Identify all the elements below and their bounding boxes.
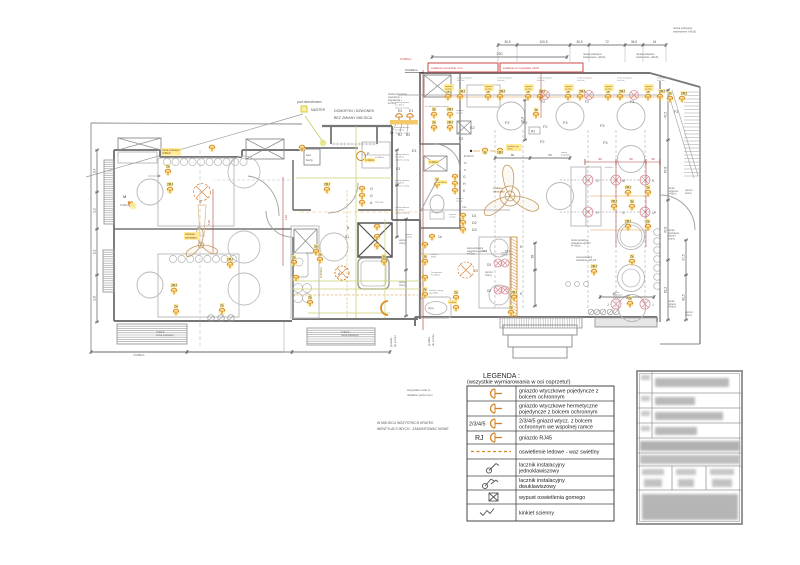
svg-text:2e: 2e xyxy=(483,151,487,155)
svg-text:h=+45cm: h=+45cm xyxy=(395,157,404,159)
svg-text:h=135cm: h=135cm xyxy=(431,275,440,277)
svg-text:pod domofonem: pod domofonem xyxy=(297,100,322,104)
svg-text:czarny: czarny xyxy=(399,242,407,245)
svg-text:wentylator: wentylator xyxy=(493,189,505,193)
svg-text:RJ: RJ xyxy=(531,130,535,134)
svg-text:czarny: czarny xyxy=(485,274,493,277)
svg-text:1e: 1e xyxy=(646,186,650,190)
svg-text:D1: D1 xyxy=(472,214,477,218)
svg-text:ramka polrona: ramka polrona xyxy=(395,126,410,129)
svg-text:1P: 1P xyxy=(652,211,657,215)
svg-text:G: G xyxy=(463,175,466,179)
svg-text:czarny: czarny xyxy=(668,238,676,241)
svg-text:h=w5cm: h=w5cm xyxy=(617,80,625,82)
svg-text:2e: 2e xyxy=(174,305,178,309)
svg-text:czarny: czarny xyxy=(445,88,452,91)
svg-text:F2: F2 xyxy=(585,100,589,104)
svg-text:2e: 2e xyxy=(432,108,436,112)
svg-text:F2: F2 xyxy=(523,121,527,125)
svg-text:czarny: czarny xyxy=(645,88,652,91)
svg-text:n=osut: n=osut xyxy=(431,253,438,256)
svg-text:2RJ: 2RJ xyxy=(324,183,330,187)
svg-text:90: 90 xyxy=(629,157,633,161)
svg-text:h=+45cm: h=+45cm xyxy=(395,210,404,212)
svg-text:E3: E3 xyxy=(396,167,400,171)
svg-text:F3: F3 xyxy=(630,100,634,104)
svg-text:90: 90 xyxy=(598,157,602,161)
svg-text:osprzet czarny: osprzet czarny xyxy=(395,211,410,214)
svg-text:BEZ ZMIANY MIEJSCA: BEZ ZMIANY MIEJSCA xyxy=(334,116,373,120)
svg-text:G: G xyxy=(596,179,599,183)
svg-text:DOMOFON I DZWONEK: DOMOFON I DZWONEK xyxy=(334,109,375,113)
svg-text:47,8: 47,8 xyxy=(664,227,668,233)
svg-text:F3: F3 xyxy=(563,121,567,125)
svg-text:ramka polrona: ramka polrona xyxy=(395,101,410,104)
svg-text:osprzet czarny: osprzet czarny xyxy=(395,158,410,161)
svg-text:zawieszenie +(RuS): zawieszenie +(RuS) xyxy=(673,29,696,33)
svg-text:130: 130 xyxy=(207,220,211,225)
svg-text:2e: 2e xyxy=(509,306,513,310)
svg-text:wal.: wal. xyxy=(306,153,312,157)
svg-text:h=110cm: h=110cm xyxy=(429,161,439,164)
svg-text:oswietlenie +(PL)x5: oswietlenie +(PL)x5 xyxy=(576,259,597,262)
svg-text:lacznik instalacyjny: lacznik instalacyjny xyxy=(519,478,565,484)
svg-text:h=25cm: h=25cm xyxy=(120,203,129,207)
svg-text:osprzet: osprzet xyxy=(565,85,573,88)
svg-text:osprzet: osprzet xyxy=(685,189,693,192)
svg-text:do prania: do prania xyxy=(393,335,397,347)
svg-text:osprzet: osprzet xyxy=(605,85,613,88)
svg-text:czarny: czarny xyxy=(399,284,407,287)
svg-text:ramka: ramka xyxy=(668,187,675,190)
svg-text:plyta: plyta xyxy=(428,306,434,310)
svg-text:1e=wolozin: 1e=wolozin xyxy=(431,272,443,274)
svg-text:zawieszenie +(RuS): zawieszenie +(RuS) xyxy=(636,56,658,59)
svg-text:2RJ: 2RJ xyxy=(171,284,177,288)
svg-text:osprzet: osprzet xyxy=(445,85,453,88)
svg-text:2/3/4/5: 2/3/4/5 xyxy=(469,422,486,428)
svg-text:62,2: 62,2 xyxy=(664,287,668,293)
svg-text:h=55cm: h=55cm xyxy=(668,307,676,309)
svg-text:E2: E2 xyxy=(398,109,402,113)
svg-text:czarny: czarny xyxy=(449,216,456,219)
svg-text:G: G xyxy=(622,211,625,215)
svg-text:M: M xyxy=(123,194,126,199)
svg-text:2e: 2e xyxy=(166,165,170,169)
svg-text:h=w5cm: h=w5cm xyxy=(657,80,665,82)
svg-text:1e: 1e xyxy=(534,108,538,112)
svg-text:jednoklawiszowy: jednoklawiszowy xyxy=(518,469,559,475)
svg-text:gniazdo RJ45: gniazdo RJ45 xyxy=(519,436,552,442)
svg-text:ramka: ramka xyxy=(668,300,675,303)
svg-text:dwuklawiszowy: dwuklawiszowy xyxy=(519,484,556,490)
svg-text:2RJ: 2RJ xyxy=(659,90,665,94)
svg-text:gniazdo wtyczkowe pojedyncze z: gniazdo wtyczkowe pojedyncze z xyxy=(519,389,599,395)
svg-text:ramka: ramka xyxy=(613,291,620,294)
svg-text:osprzet: osprzet xyxy=(456,109,464,112)
svg-text:2RJ: 2RJ xyxy=(499,90,505,94)
svg-text:E1: E1 xyxy=(412,149,417,153)
svg-text:czarny: czarny xyxy=(456,200,463,203)
svg-text:czarny: czarny xyxy=(525,88,532,91)
svg-text:cerka podwojna: cerka podwojna xyxy=(576,256,593,259)
svg-text:ramka polrona: ramka polrona xyxy=(395,179,410,182)
svg-text:podwojna: podwojna xyxy=(668,191,679,193)
svg-text:1e: 1e xyxy=(423,255,427,259)
svg-text:2RJ: 2RJ xyxy=(447,108,453,112)
svg-text:cerka podwojna: cerka podwojna xyxy=(156,334,174,337)
svg-text:80: 80 xyxy=(511,153,515,157)
svg-text:F3: F3 xyxy=(600,124,604,128)
svg-text:h=02szt: h=02szt xyxy=(467,253,475,256)
svg-text:osprzet czarny: osprzet czarny xyxy=(395,184,410,187)
svg-text:2RJ: 2RJ xyxy=(681,92,687,96)
svg-text:MASTER: MASTER xyxy=(311,108,326,112)
svg-text:N: N xyxy=(464,168,466,172)
svg-text:h=110cm: h=110cm xyxy=(365,159,375,162)
svg-text:czarny: czarny xyxy=(685,314,693,317)
svg-text:osprzet: osprzet xyxy=(449,213,457,216)
svg-text:osprzet: osprzet xyxy=(685,311,693,314)
svg-text:osprzet: osprzet xyxy=(485,271,493,274)
svg-text:wszystkie norki w: wszystkie norki w xyxy=(407,388,431,392)
svg-text:2e: 2e xyxy=(314,245,318,249)
svg-text:ukladzie poziomym: ukladzie poziomym xyxy=(407,393,433,397)
svg-text:do prania: do prania xyxy=(431,334,435,346)
svg-text:podwojna: podwojna xyxy=(613,295,623,297)
svg-text:h=180cm: h=180cm xyxy=(375,157,384,159)
svg-text:cerka podwojna: cerka podwojna xyxy=(341,334,359,337)
svg-text:h=+45cm ramka potrona: h=+45cm ramka potrona xyxy=(425,105,450,108)
svg-text:90: 90 xyxy=(548,153,552,157)
svg-text:ramka podwojna: ramka podwojna xyxy=(571,239,589,242)
svg-text:1RJ 2RJ: 1RJ 2RJ xyxy=(375,202,383,204)
svg-text:E2: E2 xyxy=(470,126,475,130)
svg-text:2/3/4/5 gniazd wtycz. z bolcem: 2/3/4/5 gniazd wtycz. z bolcem xyxy=(519,419,593,425)
svg-text:bolcem ochronnym: bolcem ochronnym xyxy=(519,395,565,401)
svg-text:h=55cm: h=55cm xyxy=(668,194,676,196)
svg-text:1e: 1e xyxy=(438,235,442,239)
svg-text:czarny: czarny xyxy=(456,112,463,115)
svg-text:wentylator: wentylator xyxy=(185,235,197,239)
svg-text:2e: 2e xyxy=(630,255,634,259)
svg-text:36,5: 36,5 xyxy=(576,40,582,44)
svg-text:D3: D3 xyxy=(487,263,491,267)
svg-text:polrona: polrona xyxy=(668,303,676,306)
svg-text:2e: 2e xyxy=(646,220,650,224)
svg-text:2RJ: 2RJ xyxy=(167,183,173,187)
svg-text:F2: F2 xyxy=(505,121,509,125)
svg-text:2e: 2e xyxy=(668,92,672,96)
svg-text:72: 72 xyxy=(605,40,609,44)
svg-text:1e: 1e xyxy=(382,255,386,259)
svg-text:1RJ: 1RJ xyxy=(497,151,503,155)
svg-text:ramka polrona: ramka polrona xyxy=(395,153,410,156)
svg-text:C0: C0 xyxy=(474,269,478,273)
svg-text:osprzet: osprzet xyxy=(668,235,676,238)
svg-text:G: G xyxy=(370,194,373,198)
svg-text:lacznik instalacyjny: lacznik instalacyjny xyxy=(519,463,565,469)
svg-text:pojedyncze z bolcem ochronnym: pojedyncze z bolcem ochronnym xyxy=(519,410,598,416)
svg-text:osprzet: osprzet xyxy=(501,251,509,254)
svg-text:zasilanie gn: zasilanie gn xyxy=(507,146,519,148)
svg-text:osprzet czarny: osprzet czarny xyxy=(395,131,410,134)
svg-text:3e: 3e xyxy=(630,200,634,204)
svg-text:osprzet: osprzet xyxy=(405,233,413,236)
svg-text:2RJ: 2RJ xyxy=(459,90,465,94)
svg-text:2RJ: 2RJ xyxy=(625,186,631,190)
svg-text:RJ: RJ xyxy=(475,435,484,442)
svg-text:D2: D2 xyxy=(472,221,477,225)
svg-text:(wszystkie wymiarowania w osi: (wszystkie wymiarowania w osi osprzetu!) xyxy=(467,380,571,386)
svg-text:podwojna: podwojna xyxy=(561,155,571,157)
svg-text:2e: 2e xyxy=(423,288,427,292)
svg-text:gniazdo wtyczkowe hermetyczne: gniazdo wtyczkowe hermetyczne xyxy=(519,404,598,410)
svg-text:230: 230 xyxy=(497,52,503,56)
svg-text:2e: 2e xyxy=(308,296,312,300)
svg-text:44: 44 xyxy=(653,40,657,44)
svg-text:osprzet: osprzet xyxy=(485,85,493,88)
svg-text:1e: 1e xyxy=(390,131,394,135)
svg-text:kinkiet scienny: kinkiet scienny xyxy=(519,511,554,517)
svg-text:2RJ: 2RJ xyxy=(227,258,233,262)
svg-text:36: 36 xyxy=(651,157,655,161)
svg-text:h=55cm: h=55cm xyxy=(162,152,171,155)
svg-text:czarny: czarny xyxy=(605,88,612,91)
svg-text:2e: 2e xyxy=(628,297,632,301)
svg-text:F3: F3 xyxy=(674,110,678,114)
svg-text:h=w5cm: h=w5cm xyxy=(497,80,505,82)
svg-text:osprzet: osprzet xyxy=(399,281,407,284)
svg-text:czarny: czarny xyxy=(485,88,492,91)
svg-text:h=+02szt: h=+02szt xyxy=(571,245,581,248)
svg-text:F3: F3 xyxy=(603,141,607,145)
svg-text:osprzet czarny: osprzet czarny xyxy=(429,289,444,292)
svg-text:2e: 2e xyxy=(432,121,436,125)
svg-text:D3: D3 xyxy=(472,228,477,232)
svg-text:F2: F2 xyxy=(541,100,545,104)
svg-text:czarny: czarny xyxy=(685,192,693,195)
svg-text:ochronnym we wspolnej ramce: ochronnym we wspolnej ramce xyxy=(519,425,593,431)
svg-text:2RJ: 2RJ xyxy=(611,200,617,204)
svg-text:E2: E2 xyxy=(459,137,463,141)
svg-text:zasilanie na zmywarke +RuS: zasilanie na zmywarke +RuS xyxy=(503,66,539,70)
svg-text:osprzet czarny: osprzet czarny xyxy=(395,106,410,109)
svg-text:h=w5cm: h=w5cm xyxy=(457,80,465,82)
svg-text:36,5: 36,5 xyxy=(504,40,510,44)
svg-text:2e: 2e xyxy=(454,291,458,295)
svg-text:tanka podwojna: tanka podwojna xyxy=(467,247,484,250)
svg-text:h=30cm: h=30cm xyxy=(449,302,457,304)
svg-text:h=55cm: h=55cm xyxy=(613,297,621,299)
svg-text:1g=100m: 1g=100m xyxy=(429,293,438,295)
svg-text:wypust oswietlenia gornego: wypust oswietlenia gornego xyxy=(518,495,585,501)
svg-text:F2: F2 xyxy=(540,140,544,144)
svg-text:2RJ: 2RJ xyxy=(447,121,453,125)
svg-text:2,9: 2,9 xyxy=(93,208,97,213)
svg-text:2e: 2e xyxy=(220,304,224,308)
svg-text:O: O xyxy=(370,187,373,191)
svg-text:osprzet: osprzet xyxy=(645,85,653,88)
svg-text:czarny: czarny xyxy=(405,236,412,239)
svg-text:oswietlenie: oswietlenie xyxy=(668,232,680,235)
svg-text:h=200cm: h=200cm xyxy=(400,57,412,61)
svg-text:130: 130 xyxy=(284,215,288,220)
svg-text:zawieszenie +(RuS): zawieszenie +(RuS) xyxy=(583,56,605,59)
svg-text:osprzet: osprzet xyxy=(456,197,464,200)
svg-text:zasilanie na kuchnie m.in.: zasilanie na kuchnie m.in. xyxy=(431,66,463,70)
svg-text:M: M xyxy=(622,179,625,183)
svg-text:h=+45cm: h=+45cm xyxy=(395,130,404,132)
svg-text:WENTYLACYJNYCH - ZAMONTOWAC NO: WENTYLACYJNYCH - ZAMONTOWAC NOWE xyxy=(377,427,449,431)
svg-text:czarny: czarny xyxy=(565,88,572,91)
svg-text:oswietlenie ledowe - waz swiet: oswietlenie ledowe - waz swietlny xyxy=(519,450,600,456)
svg-text:19a: 19a xyxy=(462,205,467,209)
svg-text:67,8: 67,8 xyxy=(664,167,668,173)
svg-text:2,8: 2,8 xyxy=(93,296,97,301)
svg-text:F2: F2 xyxy=(543,125,547,129)
svg-text:2RJ: 2RJ xyxy=(511,291,517,295)
svg-text:2e: 2e xyxy=(292,256,296,260)
svg-text:h=25cm: h=25cm xyxy=(134,353,145,357)
svg-text:W MIEJSCU WSZYSTKICH KRATEK: W MIEJSCU WSZYSTKICH KRATEK xyxy=(377,421,434,425)
svg-text:h=w5cm: h=w5cm xyxy=(577,80,585,82)
svg-text:2RJ: 2RJ xyxy=(579,90,585,94)
svg-text:83: 83 xyxy=(531,255,535,259)
svg-text:3,1: 3,1 xyxy=(93,250,97,255)
svg-text:ramka: ramka xyxy=(668,229,675,232)
svg-text:h=55cm: h=55cm xyxy=(605,167,613,169)
svg-text:h=+45cm: h=+45cm xyxy=(395,105,404,107)
svg-text:oswietlenie+gniazd: oswietlenie+gniazd xyxy=(571,242,591,245)
svg-text:81,5: 81,5 xyxy=(682,294,686,300)
svg-text:osprzet: osprzet xyxy=(399,239,407,242)
svg-text:2RJ: 2RJ xyxy=(619,90,625,94)
svg-text:2RJ: 2RJ xyxy=(625,220,631,224)
svg-text:36,5: 36,5 xyxy=(631,40,637,44)
svg-text:47,5: 47,5 xyxy=(664,112,668,118)
svg-text:czarny: czarny xyxy=(501,254,508,257)
svg-text:h=110cm: h=110cm xyxy=(438,182,447,184)
svg-text:ramka: ramka xyxy=(561,151,568,154)
svg-text:D3: D3 xyxy=(487,289,491,293)
svg-text:2RJ: 2RJ xyxy=(591,265,597,269)
svg-text:100,5: 100,5 xyxy=(540,40,548,44)
svg-text:oswietlenie+gniazd: oswietlenie+gniazd xyxy=(467,250,487,253)
svg-text:osprzet: osprzet xyxy=(525,85,533,88)
svg-text:h=240cm: h=240cm xyxy=(405,68,418,72)
svg-text:ramka polrona: ramka polrona xyxy=(395,206,410,209)
svg-text:+RuS: +RuS xyxy=(507,149,513,151)
svg-text:h=100cm: h=100cm xyxy=(319,267,323,278)
svg-text:3,4: 3,4 xyxy=(93,169,97,174)
svg-text:97,5: 97,5 xyxy=(682,254,686,260)
svg-text:E1: E1 xyxy=(409,109,413,113)
svg-text:bezp.: bezp. xyxy=(306,158,314,162)
svg-text:h=+45cm: h=+45cm xyxy=(395,183,404,185)
